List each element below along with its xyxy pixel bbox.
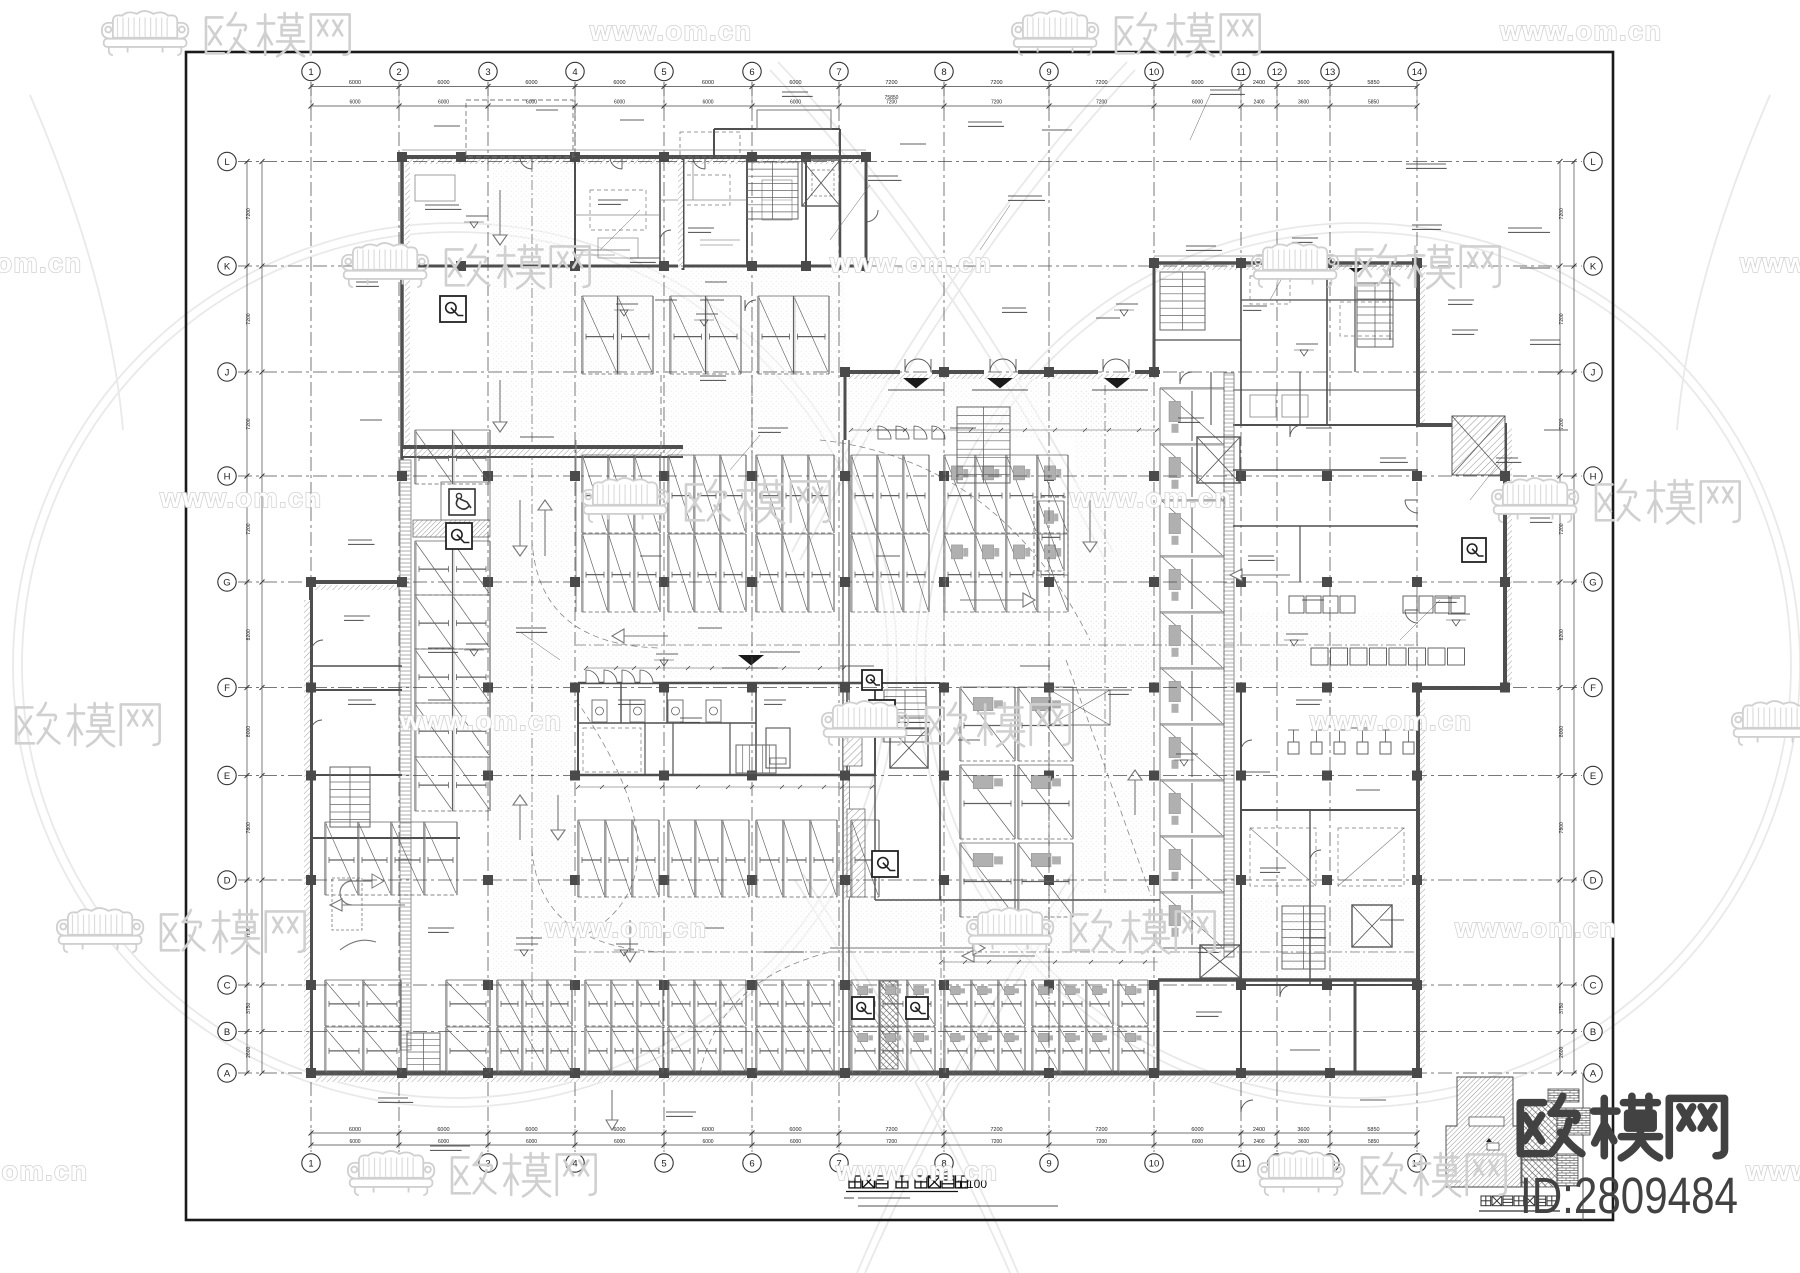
svg-text:6000: 6000 — [526, 100, 537, 106]
svg-text:www.om.cn: www.om.cn — [399, 706, 563, 736]
svg-text:3600: 3600 — [1298, 100, 1309, 106]
svg-text:6000: 6000 — [614, 1139, 625, 1145]
stair bottom left — [330, 767, 370, 827]
svg-text:5: 5 — [661, 1158, 666, 1169]
svg-text:5: 5 — [661, 67, 666, 78]
svg-text:8200: 8200 — [1559, 629, 1565, 640]
svg-text:3600: 3600 — [1297, 1127, 1309, 1133]
svg-text:www.om.cn: www.om.cn — [1069, 483, 1233, 513]
svg-text:7800: 7800 — [1559, 822, 1565, 833]
svg-text:7200: 7200 — [246, 523, 252, 534]
svg-text:C: C — [224, 980, 231, 991]
columns — [397, 152, 407, 162]
svg-text:7200: 7200 — [885, 80, 897, 86]
svg-text:L: L — [224, 157, 229, 168]
stair right top2 — [1357, 283, 1393, 347]
svg-text:7200: 7200 — [886, 1139, 897, 1145]
svg-text:9: 9 — [1046, 67, 1051, 78]
svg-text:7200: 7200 — [1095, 1127, 1107, 1133]
svg-text:2: 2 — [396, 67, 401, 78]
lane centerlines — [531, 162, 533, 1070]
svg-text:10: 10 — [1149, 67, 1160, 78]
svg-text:2400: 2400 — [1253, 100, 1264, 106]
svg-text:E: E — [224, 771, 230, 782]
svg-text:6000: 6000 — [438, 1139, 449, 1145]
svg-text:9: 9 — [1046, 1158, 1051, 1169]
parking stalls — [581, 296, 583, 374]
door arcs — [905, 359, 931, 372]
hatched wall strip — [1224, 373, 1234, 957]
svg-text:5850: 5850 — [1367, 1127, 1379, 1133]
svg-text:6000: 6000 — [1191, 80, 1203, 86]
svg-text:6000: 6000 — [349, 1127, 361, 1133]
svg-text:2600: 2600 — [1559, 1046, 1565, 1057]
svg-text:H: H — [1590, 471, 1597, 482]
svg-text:7200: 7200 — [246, 208, 252, 219]
svg-text:6000: 6000 — [702, 80, 714, 86]
svg-text:6000: 6000 — [526, 1139, 537, 1145]
svg-text:6000: 6000 — [613, 80, 625, 86]
door arc chains — [586, 670, 599, 683]
svg-text:6: 6 — [749, 1158, 754, 1169]
stair bottom right — [1282, 906, 1325, 969]
svg-text:3750: 3750 — [246, 1002, 252, 1013]
svg-text:8000: 8000 — [246, 726, 252, 737]
svg-text:7200: 7200 — [885, 1127, 897, 1133]
svg-text:H: H — [224, 471, 231, 482]
stair mid-block — [884, 690, 926, 742]
svg-text:www.om.cn: www.om.cn — [1454, 913, 1618, 943]
svg-text:8: 8 — [941, 67, 946, 78]
svg-text:6000: 6000 — [437, 80, 449, 86]
svg-text:7200: 7200 — [1095, 80, 1107, 86]
svg-text:G: G — [1589, 577, 1596, 588]
svg-text:C: C — [1590, 980, 1597, 991]
driveway stipple — [492, 160, 573, 1073]
svg-text:6000: 6000 — [790, 1139, 801, 1145]
svg-text:7200: 7200 — [990, 1127, 1002, 1133]
svg-text:13: 13 — [1325, 67, 1336, 78]
svg-text:6000: 6000 — [702, 1127, 714, 1133]
svg-text:A: A — [1590, 1068, 1597, 1079]
elevator shafts — [802, 160, 840, 206]
sheet frame — [186, 52, 1613, 1220]
svg-text:6: 6 — [749, 67, 754, 78]
svg-text:www.om.cn: www.om.cn — [0, 1156, 89, 1186]
svg-text:www.om.cn: www.om.cn — [1309, 706, 1473, 736]
svg-text:8000: 8000 — [1559, 726, 1565, 737]
svg-text:G: G — [223, 577, 230, 588]
svg-text:2600: 2600 — [246, 1046, 252, 1057]
svg-text:7200: 7200 — [1559, 208, 1565, 219]
hatch blocks — [413, 520, 490, 537]
svg-text:7200: 7200 — [246, 418, 252, 429]
svg-text:7200: 7200 — [246, 313, 252, 324]
svg-text:8200: 8200 — [246, 629, 252, 640]
fire zone diagram — [1446, 1077, 1590, 1187]
big logo text OUMOWANG — [1520, 1096, 1582, 1153]
interior dim chains — [851, 429, 1160, 431]
svg-text:5850: 5850 — [1368, 100, 1379, 106]
svg-text:E: E — [1590, 771, 1596, 782]
stair bottom mid — [407, 1033, 440, 1071]
svg-text:3750: 3750 — [1559, 1002, 1565, 1013]
svg-text:4: 4 — [572, 67, 577, 78]
svg-text:6000: 6000 — [1192, 100, 1203, 106]
svg-text:7200: 7200 — [991, 1139, 1002, 1145]
notes — [844, 1197, 854, 1199]
svg-text:6000: 6000 — [613, 1127, 625, 1133]
svg-text:6000: 6000 — [349, 80, 361, 86]
svg-text:3600: 3600 — [1297, 80, 1309, 86]
wall axis J with exits — [845, 370, 900, 374]
svg-text:6000: 6000 — [349, 100, 360, 106]
svg-text:2400: 2400 — [1253, 1139, 1264, 1145]
svg-text:7: 7 — [836, 67, 841, 78]
dimension lines — [311, 86, 1417, 88]
svg-text:D: D — [1590, 875, 1597, 886]
stair lift — [736, 745, 776, 773]
arrows — [493, 190, 507, 245]
svg-text:B: B — [224, 1027, 230, 1038]
svg-text:www.om.cn: www.om.cn — [1745, 1156, 1800, 1186]
svg-text:6000: 6000 — [790, 100, 801, 106]
svg-text:6000: 6000 — [525, 80, 537, 86]
svg-text:A: A — [224, 1068, 231, 1079]
grid axes — [310, 82, 312, 1152]
svg-text:6000: 6000 — [614, 100, 625, 106]
svg-text:14: 14 — [1412, 67, 1423, 78]
svg-text:www.om.cn: www.om.cn — [544, 913, 708, 943]
svg-text:2400: 2400 — [1253, 80, 1265, 86]
svg-text:www.om.cn: www.om.cn — [589, 16, 753, 46]
svg-text:www.om.cn: www.om.cn — [0, 248, 83, 278]
svg-text:10: 10 — [1149, 1158, 1160, 1169]
svg-text:L: L — [1590, 157, 1595, 168]
svg-text:7200: 7200 — [1096, 100, 1107, 106]
axis bubbles — [302, 62, 320, 80]
stair top mid — [747, 162, 798, 219]
svg-text:75850: 75850 — [885, 95, 899, 101]
svg-text:1: 1 — [308, 1158, 313, 1169]
svg-text:www.om.cn: www.om.cn — [1739, 248, 1800, 278]
svg-text:7800: 7800 — [246, 822, 252, 833]
svg-text:D: D — [224, 875, 231, 886]
svg-text:7200: 7200 — [1559, 523, 1565, 534]
svg-text:1: 1 — [308, 67, 313, 78]
svg-text:6000: 6000 — [349, 1139, 360, 1145]
annotations — [425, 204, 459, 206]
svg-text:7200: 7200 — [1559, 418, 1565, 429]
stair right top — [1160, 272, 1205, 330]
svg-text:6000: 6000 — [525, 1127, 537, 1133]
svg-text:7200: 7200 — [991, 100, 1002, 106]
svg-text:11: 11 — [1236, 1158, 1246, 1169]
svg-text:6000: 6000 — [789, 1127, 801, 1133]
title — [849, 1176, 861, 1188]
svg-text:K: K — [224, 261, 231, 272]
svg-text:www.om.cn: www.om.cn — [829, 248, 993, 278]
building walls — [402, 155, 868, 159]
svg-text:5850: 5850 — [1368, 1139, 1379, 1145]
svg-text:6000: 6000 — [1191, 1127, 1203, 1133]
svg-text:6000: 6000 — [702, 100, 713, 106]
svg-text:J: J — [225, 367, 230, 378]
svg-text:7200: 7200 — [990, 80, 1002, 86]
svg-text:www.om.cn: www.om.cn — [835, 1156, 999, 1186]
svg-text:K: K — [1590, 261, 1597, 272]
svg-text:12: 12 — [1272, 67, 1283, 78]
equipment rows — [1289, 596, 1304, 613]
svg-text:2400: 2400 — [1253, 1127, 1265, 1133]
svg-text:F: F — [224, 683, 230, 694]
svg-text:3600: 3600 — [1298, 1139, 1309, 1145]
svg-text:6000: 6000 — [437, 1127, 449, 1133]
svg-text:6000: 6000 — [702, 1139, 713, 1145]
stair mid — [957, 407, 1010, 483]
rolling shutter icons — [440, 296, 466, 322]
svg-text:7200: 7200 — [1096, 1139, 1107, 1145]
svg-text:F: F — [1590, 683, 1596, 694]
svg-text:5850: 5850 — [1367, 80, 1379, 86]
exit triangles — [903, 378, 929, 388]
svg-text:J: J — [1591, 367, 1596, 378]
svg-text:6000: 6000 — [438, 100, 449, 106]
svg-text:7200: 7200 — [1559, 313, 1565, 324]
svg-text:www.om.cn: www.om.cn — [159, 483, 323, 513]
svg-text:3: 3 — [485, 67, 490, 78]
svg-text:6000: 6000 — [789, 80, 801, 86]
svg-text:6000: 6000 — [1192, 1139, 1203, 1145]
svg-text:ID:2809484: ID:2809484 — [1520, 1167, 1738, 1224]
svg-text:www.om.cn: www.om.cn — [1499, 16, 1663, 46]
svg-text:B: B — [1590, 1027, 1596, 1038]
svg-text:11: 11 — [1236, 67, 1246, 78]
